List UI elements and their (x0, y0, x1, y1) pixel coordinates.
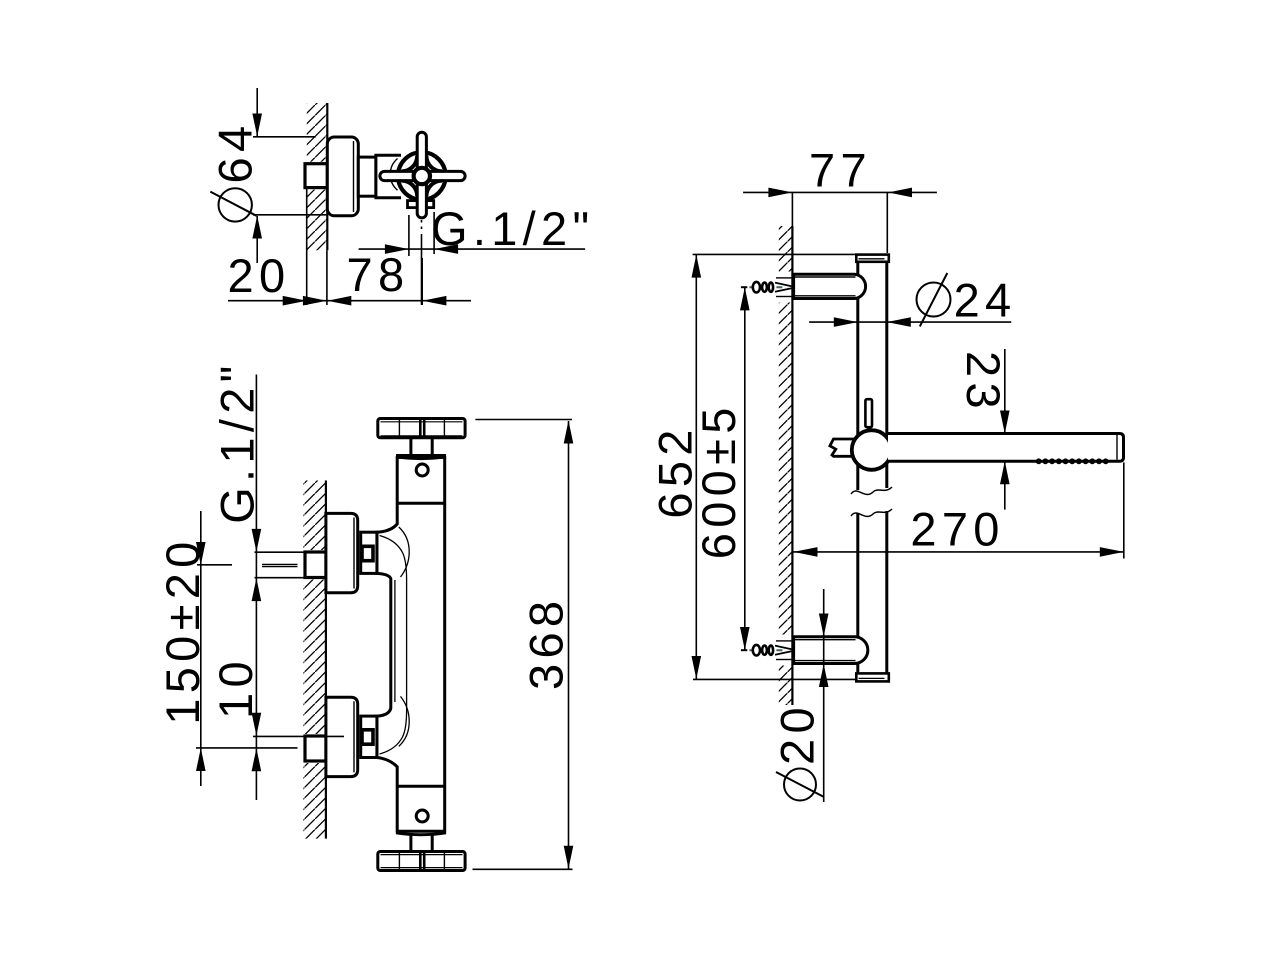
svg-text:270: 270 (910, 502, 1004, 555)
svg-text:G.1/2": G.1/2" (431, 202, 594, 255)
svg-text:23: 23 (957, 351, 1010, 414)
svg-text:64: 64 (209, 121, 262, 184)
svg-text:20: 20 (228, 249, 291, 302)
svg-text:150±20: 150±20 (156, 536, 209, 724)
svg-text:78: 78 (347, 248, 410, 301)
svg-text:10: 10 (209, 656, 262, 719)
svg-text:24: 24 (954, 274, 1017, 327)
svg-text:600±5: 600±5 (692, 402, 745, 559)
svg-text:368: 368 (520, 596, 573, 690)
svg-text:77: 77 (809, 144, 872, 197)
svg-text:G.1/2": G.1/2" (211, 360, 264, 523)
svg-text:20: 20 (771, 702, 824, 765)
